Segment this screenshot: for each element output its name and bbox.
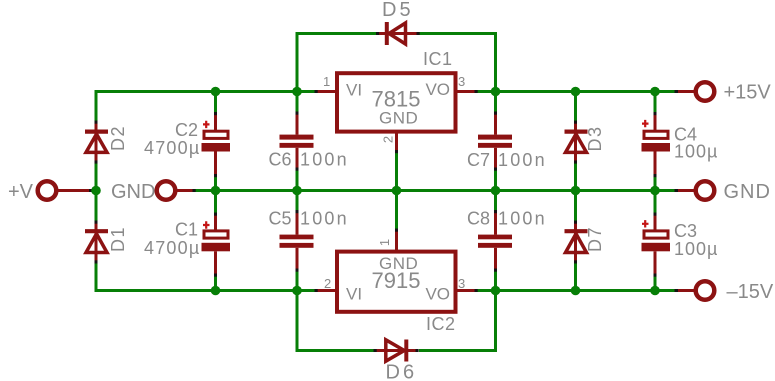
- wire vertical x=215.5 (C2/C1 column): [214, 92, 217, 291]
- svg-text:2: 2: [324, 276, 331, 291]
- svg-text:IC2: IC2: [426, 314, 456, 334]
- diode D3: [565, 121, 606, 162]
- wire vertical x=297 (C6/C5 column): [296, 32, 299, 352]
- svg-text:2: 2: [381, 136, 396, 143]
- connector pad -15V: [676, 281, 774, 303]
- capacitor C7 100n: [467, 112, 547, 170]
- pin junction ticks: [89, 32, 678, 352]
- svg-text:D6: D6: [386, 362, 418, 381]
- svg-text:100µ: 100µ: [674, 239, 718, 259]
- svg-text:GND: GND: [379, 108, 418, 127]
- svg-text:GND: GND: [379, 254, 418, 273]
- wire row A (D5 bypass top): [296, 32, 498, 35]
- diode D5: [379, 0, 417, 45]
- svg-text:C7: C7: [467, 150, 490, 170]
- junction +15V net / C4: [650, 87, 660, 97]
- voltage regulator IC1 (7815): [317, 49, 476, 152]
- connector pad GND right: [676, 181, 771, 203]
- junction -IN rail / C1: [211, 286, 221, 296]
- voltage regulator IC2 (7915): [317, 231, 476, 335]
- junction -15V net / C8 / D6 loop: [491, 286, 501, 296]
- junction GND / C4 / C3: [650, 186, 660, 196]
- svg-text:100n: 100n: [300, 209, 349, 229]
- wire vertical x=396.5 (regulator GND pins): [395, 152, 398, 230]
- svg-text:100n: 100n: [498, 209, 547, 229]
- svg-text:+V: +V: [8, 181, 34, 203]
- svg-text:3: 3: [458, 276, 465, 291]
- svg-text:+15V: +15V: [724, 82, 772, 104]
- wire vertical x=495.5 (C7/C8 column): [494, 32, 497, 352]
- capacitor C2 4700u: [144, 113, 230, 177]
- svg-text:VI: VI: [346, 284, 362, 303]
- wire row C (GND rail): [91, 189, 676, 192]
- svg-text:1: 1: [323, 74, 330, 89]
- svg-text:D1: D1: [108, 226, 128, 252]
- capacitor C1 4700u: [144, 214, 230, 276]
- svg-text:4700µ: 4700µ: [144, 138, 200, 158]
- junction GND / C6 / C5: [292, 186, 302, 196]
- svg-text:4700µ: 4700µ: [144, 238, 200, 258]
- svg-text:C1: C1: [175, 220, 198, 240]
- junction GND / C2 / C1: [211, 186, 221, 196]
- svg-text:100µ: 100µ: [674, 142, 718, 162]
- svg-text:D7: D7: [585, 226, 605, 252]
- svg-text:C2: C2: [175, 120, 198, 140]
- svg-text:GND: GND: [111, 181, 155, 203]
- wire vertical x=655 (C4/C3 column): [654, 92, 657, 291]
- diode D2: [85, 121, 128, 162]
- svg-text:3: 3: [458, 74, 465, 89]
- junction +IN rail / C6 / D5 loop: [292, 87, 302, 97]
- diode D6: [376, 340, 417, 381]
- svg-text:IC1: IC1: [423, 49, 453, 69]
- svg-text:C6: C6: [269, 150, 292, 170]
- diode D1: [85, 221, 128, 263]
- svg-text:VO: VO: [425, 284, 450, 303]
- junction -IN rail / C5 / D6 loop: [292, 286, 302, 296]
- svg-text:–15V: –15V: [727, 281, 774, 303]
- wire row B (+input rail): [96, 90, 676, 93]
- junction +V / D1 / D2: [91, 186, 101, 196]
- capacitor C3 100u: [642, 214, 719, 276]
- connector pad GND left: [111, 181, 195, 203]
- connector pad +15V: [676, 82, 771, 104]
- junction GND / D3 / D7: [571, 186, 581, 196]
- svg-text:C3: C3: [674, 221, 697, 241]
- svg-text:GND: GND: [724, 181, 771, 203]
- capacitor C4 100u: [642, 113, 719, 176]
- svg-text:C5: C5: [269, 209, 292, 229]
- svg-text:D3: D3: [585, 125, 605, 151]
- svg-text:VO: VO: [425, 80, 450, 99]
- wire row D (-input rail): [96, 289, 676, 292]
- junction GND / C7 / C8: [491, 186, 501, 196]
- svg-text:D5: D5: [382, 0, 414, 21]
- wire row E (D6 bypass bottom): [296, 349, 498, 352]
- connector pad +V: [8, 181, 91, 203]
- diode D7: [565, 221, 606, 263]
- svg-text:100n: 100n: [498, 150, 547, 170]
- svg-text:100n: 100n: [300, 150, 349, 170]
- junction GND / IC1 pin2 / IC2 pin1: [392, 186, 402, 196]
- capacitor C6 100n: [269, 112, 349, 170]
- junction -15V net / C3: [650, 286, 660, 296]
- junction +15V net / C7 / D5 loop: [491, 87, 501, 97]
- junction -15V net / D7: [571, 286, 581, 296]
- wire vertical x=575.5 (D3/D7 column): [574, 90, 577, 292]
- svg-text:D2: D2: [108, 125, 128, 151]
- svg-text:VI: VI: [346, 81, 362, 100]
- junction +15V net / D3: [571, 87, 581, 97]
- svg-text:1: 1: [377, 239, 392, 246]
- svg-text:C8: C8: [467, 209, 490, 229]
- wire left vertical x=96: [95, 90, 98, 292]
- capacitor C5 100n: [269, 209, 349, 271]
- capacitor C8 100n: [467, 209, 547, 271]
- junction +IN rail / C2: [211, 87, 221, 97]
